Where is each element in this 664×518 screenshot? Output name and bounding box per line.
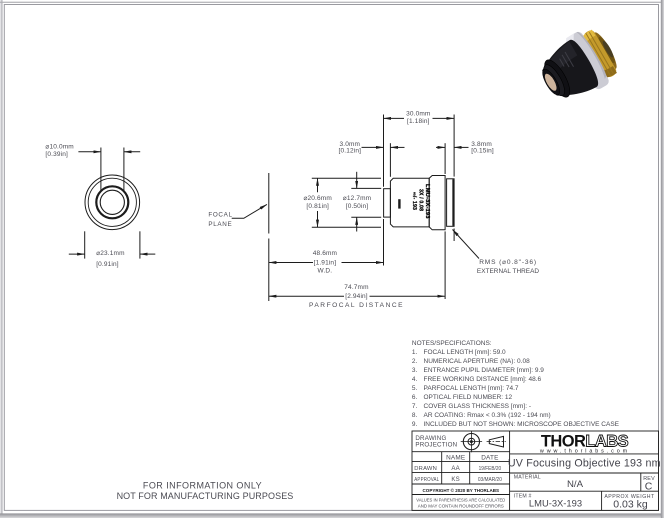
- svg-text:FOR INFORMATION ONLY: FOR INFORMATION ONLY: [143, 480, 262, 490]
- page left edge shading: [1, 0, 2, 518]
- svg-text:9.: 9.: [412, 421, 418, 428]
- objective flange Ø23.1: [429, 176, 445, 230]
- svg-text:⌀23.1mm: ⌀23.1mm: [96, 250, 124, 257]
- svg-text:6.: 6.: [412, 394, 418, 401]
- svg-text:PARFOCAL DISTANCE: PARFOCAL DISTANCE: [309, 302, 404, 309]
- front view circle Ø20.6: [88, 178, 136, 226]
- photo gold thread: [582, 29, 618, 79]
- dimension 30.0mm lines: [384, 115, 455, 266]
- svg-text:[0.81in]: [0.81in]: [306, 203, 329, 210]
- photo engraving marks: [558, 52, 573, 71]
- front view outer circle Ø23.1: [85, 175, 140, 230]
- svg-text:7.: 7.: [412, 403, 418, 410]
- svg-text:[0.39in]: [0.39in]: [45, 151, 68, 158]
- svg-text:LMU-3X-193: LMU-3X-193: [529, 498, 582, 509]
- body engraving block mark: [398, 199, 400, 208]
- svg-text:OPTICAL FIELD NUMBER: 12: OPTICAL FIELD NUMBER: 12: [424, 394, 513, 401]
- body engraving text column 1: [424, 184, 430, 219]
- front view circle Ø10.0: [100, 190, 124, 214]
- svg-text:3X / 0.08: 3X / 0.08: [417, 189, 423, 211]
- svg-text:[0.50in]: [0.50in]: [346, 203, 369, 210]
- svg-text:ENTRANCE PUPIL DIAMETER [mm]:: ENTRANCE PUPIL DIAMETER [mm]: 9.9: [424, 367, 545, 374]
- dimension Ø12.7mm lines: [351, 172, 381, 232]
- svg-text:8.: 8.: [412, 412, 418, 419]
- objective tip (front barrel): [384, 189, 391, 217]
- focal plane leader: [232, 204, 267, 218]
- photo front step ring 1: [540, 62, 569, 99]
- title block right h-line logo: [510, 453, 659, 455]
- title block h-line row3: [412, 471, 510, 473]
- svg-text:C: C: [645, 480, 653, 492]
- dimension Ø20.6mm lines: [312, 178, 381, 227]
- svg-text:FOCAL: FOCAL: [208, 212, 232, 219]
- title block h-line row2: [412, 460, 510, 462]
- dimension 48.6mm lines: [269, 262, 384, 264]
- title block outer rect: [412, 431, 659, 510]
- svg-text:⌀10.0mm: ⌀10.0mm: [45, 144, 73, 151]
- title block h-line row4: [412, 483, 510, 485]
- svg-text:PROJECTION: PROJECTION: [415, 441, 457, 448]
- title block h-line row1: [412, 451, 510, 453]
- dimension 3.8mm lines: [436, 143, 469, 299]
- svg-text:03/MAR/20: 03/MAR/20: [478, 477, 502, 483]
- svg-text:COPYRIGHT © 2020 BY THORLABS: COPYRIGHT © 2020 BY THORLABS: [423, 487, 500, 494]
- svg-text:5.: 5.: [412, 385, 418, 392]
- svg-text:3.: 3.: [412, 367, 418, 374]
- objective RMS thread section: [447, 179, 455, 227]
- RMS leader: [453, 230, 480, 259]
- photo body sheen: [538, 41, 581, 79]
- svg-text:⌀20.6mm: ⌀20.6mm: [303, 195, 331, 202]
- svg-text:N/A: N/A: [567, 479, 584, 490]
- svg-text:FREE WORKING DISTANCE [mm]: 48: FREE WORKING DISTANCE [mm]: 48.6: [424, 376, 542, 383]
- svg-text:AND MAY CONTAIN ROUNDOFF ERROR: AND MAY CONTAIN ROUNDOFF ERRORS: [418, 504, 504, 510]
- svg-text:www.thorlabs.com: www.thorlabs.com: [539, 449, 630, 455]
- page top edge line: [0, 2, 664, 3]
- svg-text:NOT FOR MANUFACTURING PURPOSES: NOT FOR MANUFACTURING PURPOSES: [117, 491, 294, 501]
- svg-text:4.: 4.: [412, 376, 418, 383]
- svg-text:VALUES IN PARENTHESIS ARE CALC: VALUES IN PARENTHESIS ARE CALCULATED: [416, 498, 505, 504]
- body engraving text column 2: [417, 189, 423, 211]
- svg-text:[0.15in]: [0.15in]: [471, 148, 494, 155]
- projection cone symbol: [487, 436, 506, 447]
- title block h-line row5: [412, 494, 510, 496]
- title block right h-line title: [510, 472, 659, 474]
- photo front step ring 2: [540, 56, 575, 100]
- svg-text:2.: 2.: [412, 358, 418, 365]
- svg-text:1.: 1.: [412, 349, 418, 356]
- svg-text:48.6mm: 48.6mm: [313, 250, 337, 257]
- svg-text:0.03 kg: 0.03 kg: [613, 499, 648, 511]
- svg-text:DRAWN: DRAWN: [414, 466, 437, 472]
- photo front face: [539, 67, 563, 97]
- svg-text:NUMERICAL APERTURE (NA): 0.08: NUMERICAL APERTURE (NA): 0.08: [424, 358, 531, 365]
- page right shadow: [661, 0, 664, 518]
- svg-text:74.7mm: 74.7mm: [344, 284, 368, 291]
- svg-text:W.D.: W.D.: [318, 268, 333, 275]
- svg-text:LMU-3X-193: LMU-3X-193: [424, 184, 430, 219]
- photo silver collar: [559, 29, 612, 95]
- svg-text:EXTERNAL THREAD: EXTERNAL THREAD: [477, 268, 540, 275]
- focal plane line: [268, 173, 270, 301]
- photo black body: [536, 37, 602, 107]
- svg-text:AA: AA: [451, 465, 460, 472]
- svg-text:30.0mm: 30.0mm: [406, 111, 430, 118]
- svg-text:RMS (⌀0.8"-36): RMS (⌀0.8"-36): [479, 259, 537, 266]
- dimension Ø23.1mm lines: [69, 231, 156, 258]
- title block main divider: [509, 431, 511, 510]
- title block v-line weight: [601, 491, 603, 510]
- svg-text:FOCAL LENGTH [mm]: 59.0: FOCAL LENGTH [mm]: 59.0: [424, 349, 506, 356]
- body engraving text column 3: [411, 192, 417, 210]
- svg-text:[0.12in]: [0.12in]: [339, 148, 362, 155]
- svg-text:UV Focusing Objective 193 nm: UV Focusing Objective 193 nm: [508, 458, 661, 470]
- title block v-line col2: [469, 452, 471, 484]
- svg-text:COVER GLASS THICKNESS [mm]: -: COVER GLASS THICKNESS [mm]: -: [424, 403, 532, 410]
- svg-text:AR COATING: Rmax < 0.3% (192 -: AR COATING: Rmax < 0.3% (192 - 194 nm): [424, 412, 551, 419]
- dimension 74.7mm lines: [269, 295, 445, 297]
- photo rear bronze end cap: [590, 30, 620, 71]
- svg-text:APPROVAL: APPROVAL: [414, 477, 439, 483]
- projection target symbol: [461, 431, 482, 452]
- svg-text:PARFOCAL LENGTH [mm]: 74.7: PARFOCAL LENGTH [mm]: 74.7: [424, 385, 519, 392]
- svg-text:∞/- 193: ∞/- 193: [411, 192, 417, 210]
- svg-text:NOTES/SPECIFICATIONS:: NOTES/SPECIFICATIONS:: [412, 340, 492, 347]
- svg-text:DATE: DATE: [481, 455, 498, 462]
- svg-text:MATERIAL: MATERIAL: [514, 474, 541, 480]
- svg-text:⌀12.7mm: ⌀12.7mm: [343, 195, 371, 202]
- svg-text:THORLABS: THORLABS: [541, 432, 629, 450]
- dimension Ø10.0mm lines: [78, 148, 140, 191]
- svg-text:[0.91in]: [0.91in]: [96, 261, 119, 268]
- svg-text:NAME: NAME: [446, 455, 465, 462]
- svg-text:[1.18in]: [1.18in]: [407, 118, 430, 125]
- objective main body Ø20.6: [390, 178, 429, 227]
- photo lens: [543, 72, 559, 92]
- page bottom shadow: [0, 513, 664, 518]
- title block right h-line material: [510, 490, 659, 492]
- svg-text:KS: KS: [451, 476, 460, 483]
- title block v-line col1: [441, 452, 443, 484]
- svg-text:PLANE: PLANE: [208, 221, 232, 228]
- svg-text:[1.91in]: [1.91in]: [314, 260, 337, 267]
- svg-text:[2.94in]: [2.94in]: [345, 293, 368, 300]
- title block v-line rev: [640, 473, 642, 491]
- svg-text:19/FEB/20: 19/FEB/20: [479, 466, 502, 472]
- front view circle Ø12.7 (thick): [96, 186, 128, 218]
- svg-text:INCLUDED BUT NOT SHOWN: MICROS: INCLUDED BUT NOT SHOWN: MICROSCOPE OBJEC…: [424, 421, 620, 428]
- thread right edge thick line: [452, 179, 454, 226]
- dimension 3.0mm lines: [362, 143, 405, 177]
